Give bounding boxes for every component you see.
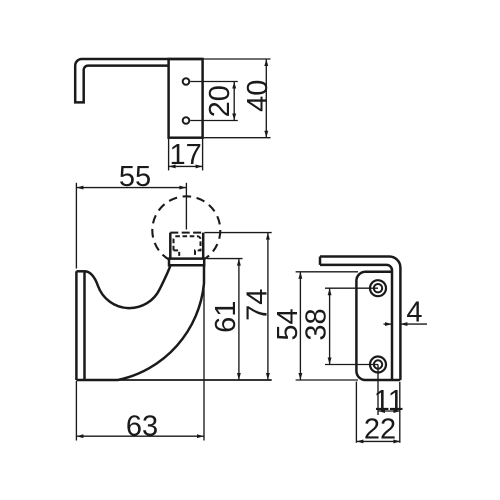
- side view hole upper: [370, 280, 386, 296]
- side view arm inner outline: [320, 265, 392, 380]
- svg-text:17: 17: [169, 139, 201, 171]
- front view wall plate outer edge: [75, 271, 78, 380]
- dimension 61 line: [238, 259, 240, 380]
- extension line 54 top: [296, 271, 358, 273]
- dimension 55 line: [76, 187, 186, 189]
- extension line 63 right: [203, 267, 205, 441]
- extension line 40 top: [204, 58, 271, 60]
- top view hole lower: [183, 117, 190, 124]
- extension line hole upper: [190, 81, 238, 83]
- front view clamp right wall: [202, 233, 205, 259]
- extension line 55 right (rail centerline): [185, 183, 187, 230]
- dimension 4 leader right: [400, 323, 427, 325]
- extension line 40 bottom: [204, 137, 271, 139]
- extension line 22 left: [355, 382, 357, 443]
- svg-text:11: 11: [374, 385, 404, 417]
- front view plate top cap: [76, 270, 84, 273]
- front view bottom edge: [76, 379, 118, 382]
- svg-text:4: 4: [406, 296, 422, 328]
- front view rail profile dashed: [174, 236, 201, 256]
- dimension 54 line: [299, 272, 301, 380]
- extension line 38 lower (through hole): [325, 364, 378, 366]
- front view wall plate inner edge: [83, 271, 86, 380]
- extension line 17 right: [202, 139, 204, 171]
- front view clamp top edge dashed: [170, 232, 203, 234]
- svg-text:55: 55: [119, 161, 151, 193]
- svg-text:20: 20: [204, 85, 236, 117]
- dimension 22 line: [356, 440, 400, 442]
- front view clamp flange: [169, 259, 204, 266]
- side view plate outline: [356, 272, 400, 380]
- dimension 74 line: [267, 233, 269, 380]
- svg-text:40: 40: [242, 80, 274, 112]
- side view arm outer outline: [320, 257, 400, 380]
- top view hook arm outline: [75, 59, 202, 102]
- svg-text:74: 74: [242, 289, 274, 321]
- extension line 61 right: [207, 258, 243, 260]
- svg-text:63: 63: [126, 410, 158, 442]
- front view clamp left wall: [169, 233, 172, 259]
- top view mounting plate: [169, 59, 203, 138]
- extension line 54 bottom: [296, 379, 358, 381]
- extension line 55 left: [75, 183, 77, 269]
- extension line 63 left (below plate): [75, 381, 77, 441]
- top view hole upper: [183, 78, 190, 85]
- detail circle dashed: [152, 196, 220, 264]
- extension line 11/22 right: [399, 382, 401, 443]
- dimension 40 line: [265, 59, 267, 138]
- bottom extension line right: [118, 379, 272, 381]
- extension line 74 right: [205, 232, 272, 234]
- dimension 63 line: [76, 435, 204, 437]
- svg-text:38: 38: [300, 308, 332, 340]
- dimension 4 leader left: [384, 323, 393, 325]
- dimension 20 line: [233, 82, 235, 121]
- svg-text:54: 54: [272, 308, 304, 340]
- svg-text:61: 61: [210, 301, 242, 333]
- extension line hole lower: [190, 120, 238, 122]
- extension line 11 left (hole centerline): [377, 365, 379, 416]
- side view arm left cap: [319, 257, 322, 265]
- side view hole lower: [370, 357, 386, 373]
- svg-text:22: 22: [364, 413, 396, 445]
- dimension 38 line: [329, 288, 331, 364]
- extension line 38 upper (through hole): [325, 287, 378, 289]
- front view cradle curve: [85, 265, 171, 308]
- front view outer right edge and big curve: [118, 265, 204, 380]
- dimension 17 line: [169, 165, 203, 167]
- extension line 17 left: [168, 139, 170, 171]
- dimension 11 line: [378, 410, 400, 412]
